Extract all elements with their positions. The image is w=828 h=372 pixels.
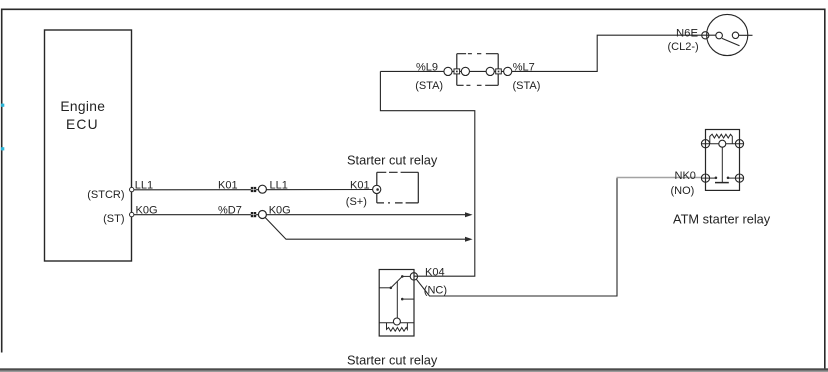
svg-text:%D7: %D7 <box>218 205 242 217</box>
svg-text:(CL2-): (CL2-) <box>668 41 699 53</box>
svg-text:ATM starter relay: ATM starter relay <box>673 212 771 227</box>
svg-text:(NO): (NO) <box>671 185 695 197</box>
svg-text:K01: K01 <box>218 180 238 192</box>
svg-text:NK0: NK0 <box>675 170 696 182</box>
svg-text:(NC): (NC) <box>424 285 447 297</box>
svg-text:(S+): (S+) <box>346 196 367 208</box>
svg-text:K0G: K0G <box>269 205 291 217</box>
svg-text:LL1: LL1 <box>135 180 153 192</box>
svg-text:(STCR): (STCR) <box>87 189 124 201</box>
svg-text:%L7: %L7 <box>513 61 535 73</box>
svg-text:%L9: %L9 <box>416 61 438 73</box>
svg-text:N6E: N6E <box>676 28 698 40</box>
svg-text:(ST): (ST) <box>103 213 124 225</box>
svg-text:(STA): (STA) <box>513 80 541 92</box>
svg-text:Starter cut relay: Starter cut relay <box>347 153 438 168</box>
svg-text:(STA): (STA) <box>415 80 443 92</box>
svg-text:K0G: K0G <box>136 205 158 217</box>
svg-text:Starter cut relay: Starter cut relay <box>347 353 438 368</box>
svg-text:Engine: Engine <box>60 99 105 114</box>
svg-text:LL1: LL1 <box>270 180 288 192</box>
svg-text:K04: K04 <box>425 266 445 278</box>
svg-text:ECU: ECU <box>66 117 99 132</box>
svg-text:K01: K01 <box>350 180 370 192</box>
